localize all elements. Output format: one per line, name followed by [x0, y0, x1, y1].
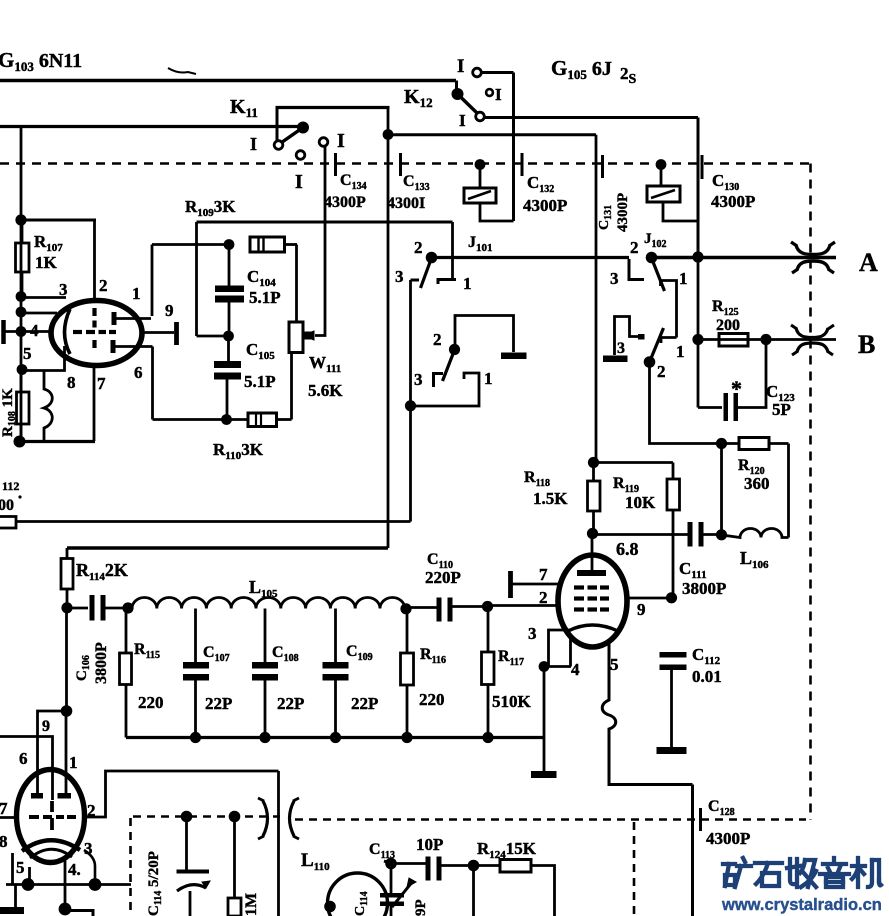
- ground lower left: [0, 885, 24, 915]
- svg-text:4: 4: [571, 660, 580, 679]
- wire second line to K11 pole: [0, 125, 301, 128]
- svg-text:4300I: 4300I: [387, 195, 425, 212]
- node L105 left: [122, 602, 133, 613]
- svg-text:4300P: 4300P: [324, 194, 366, 211]
- node C110 right: [482, 601, 493, 612]
- tube label G103 6N11: [0, 48, 82, 74]
- capacitor C110: [437, 598, 489, 622]
- svg-text:5: 5: [610, 655, 619, 674]
- capacitor C123 label: [766, 382, 795, 419]
- capacitor C130 label: [711, 171, 755, 211]
- wire top supply line: [0, 79, 456, 82]
- svg-text:5.1P: 5.1P: [244, 372, 276, 391]
- switch K11 contact II-b circle: [319, 138, 328, 147]
- svg-text:6: 6: [19, 749, 28, 768]
- capacitor C134 label: [324, 172, 367, 211]
- node at 388,134: [383, 129, 394, 140]
- tube G101 cathode arcs: [22, 840, 80, 858]
- node pin3 stub: [16, 291, 27, 302]
- wire pin9 stub: [627, 597, 672, 600]
- resistor R108 label rotated: [0, 388, 18, 437]
- capacitor C104 label: [247, 267, 281, 307]
- switch J102 step contact 3: [629, 259, 644, 280]
- svg-text:00: 00: [0, 497, 14, 514]
- pin label 4 lower: [68, 860, 81, 879]
- trimmer C114 right: [380, 868, 416, 916]
- trimmer J102 bottom loop: [663, 202, 698, 221]
- trimmer J101 node: [475, 159, 486, 170]
- switch J101 contact 1 bar: [438, 280, 456, 285]
- svg-text:4300P: 4300P: [706, 829, 750, 848]
- switch J102 label 1 upper: [679, 269, 688, 288]
- resistor R118: [588, 463, 601, 534]
- switch K11 label II below: [295, 171, 303, 193]
- node grid input: [16, 326, 27, 337]
- node R117 bottom: [482, 732, 493, 743]
- svg-text:1: 1: [463, 274, 472, 293]
- capacitor C105 label: [244, 340, 276, 391]
- wire cathode left drop: [11, 853, 14, 885]
- node cathode bottom: [14, 436, 26, 448]
- connector A arcs: [791, 242, 835, 273]
- node L105 right: [400, 603, 411, 614]
- node L110 tap: [324, 901, 336, 913]
- node heater tap: [17, 364, 28, 375]
- switch K12 contact I bottom circle: [476, 112, 485, 121]
- resistor R117: [482, 607, 495, 738]
- resistor R107: [16, 220, 30, 296]
- grid input T-bar: [4, 320, 51, 344]
- svg-text:*: *: [731, 376, 742, 401]
- trimmer J102 label: [644, 231, 667, 250]
- switch K11 label I: [250, 134, 257, 154]
- gang coupling symbol: [258, 798, 299, 839]
- svg-text:9: 9: [42, 718, 50, 735]
- terminal label A: [859, 248, 878, 277]
- switch K12 label I aux: [495, 85, 502, 104]
- capacitor C130 tick: [701, 155, 704, 179]
- label 6.8: [616, 539, 639, 559]
- svg-text:4300P: 4300P: [615, 193, 631, 232]
- svg-text:2: 2: [630, 238, 639, 257]
- switch J101b contact 1: [413, 373, 479, 406]
- wire 388 to 596 link: [388, 133, 596, 136]
- svg-text:1: 1: [679, 269, 688, 288]
- switch J101 contact 3: [432, 374, 443, 388]
- switch J102b label 3: [617, 340, 625, 357]
- pin label 2 G105: [539, 588, 548, 607]
- svg-text:2: 2: [87, 801, 96, 820]
- switch J101b top link: [455, 316, 514, 353]
- wire x722 link: [720, 444, 723, 535]
- pin label 3 lower: [84, 839, 93, 858]
- wire pin3 drop lower: [84, 850, 95, 885]
- switch K12 aux circle: [486, 89, 493, 96]
- svg-text:3: 3: [59, 280, 68, 299]
- switch K11 label II right: [337, 130, 345, 152]
- inductor L105: [132, 598, 405, 609]
- svg-text:4300P: 4300P: [523, 196, 567, 215]
- node bottom bus b: [89, 878, 102, 891]
- svg-text:8: 8: [0, 832, 8, 851]
- resistor R115: [120, 608, 132, 738]
- trimmer J101 bottom loop: [480, 203, 514, 221]
- wire top of R107 box: [18, 219, 96, 222]
- capacitor C105: [214, 336, 241, 420]
- svg-text:A: A: [859, 248, 878, 277]
- capacitor C112: [660, 652, 687, 747]
- svg-text:1: 1: [132, 284, 141, 303]
- left partial label 112: [0, 479, 22, 514]
- svg-text:R12415K: R12415K: [477, 839, 537, 861]
- switch K12 label I bottom: [459, 111, 466, 130]
- svg-text:7: 7: [539, 565, 548, 584]
- node C113 R124 junction: [468, 860, 480, 872]
- node trimmer C114 tap: [181, 811, 193, 823]
- switch K11 label: [230, 96, 258, 120]
- svg-text:0.01: 0.01: [692, 667, 722, 686]
- trimmer J102 body: [647, 186, 680, 202]
- wire pin4 drop lower: [64, 858, 67, 908]
- trimmer J102 node: [656, 159, 667, 170]
- switch J101 upper contact 3: [411, 279, 420, 282]
- svg-text:6: 6: [134, 363, 143, 382]
- wire pin6 drop: [151, 347, 154, 420]
- svg-text:220: 220: [419, 690, 445, 709]
- wire K12 I to right riser: [484, 116, 698, 119]
- wire pin2 drop: [93, 221, 96, 303]
- pin label 5: [23, 344, 32, 363]
- switch J102b lever: [650, 328, 664, 362]
- capacitor C131 tick: [601, 155, 604, 178]
- scan artifact tilde: [168, 68, 196, 74]
- node pin4 bottom: [59, 903, 72, 916]
- svg-text:2: 2: [414, 238, 423, 257]
- resistor R114: [61, 548, 73, 608]
- capacitor C107 label: [203, 644, 232, 713]
- capacitor C113: [426, 857, 475, 881]
- resistor R107 label: [34, 232, 63, 272]
- wire R114 top line: [67, 546, 388, 549]
- svg-text:5: 5: [23, 344, 32, 363]
- tube G105 cathode arc: [568, 625, 618, 631]
- wire K12 top contact link: [481, 71, 514, 74]
- wire anode box left: [195, 222, 198, 336]
- resistor R125: [719, 334, 748, 347]
- resistor 1M label rotated: [243, 893, 260, 916]
- ground cathode G105: [531, 738, 557, 779]
- switch J101 label 1: [463, 274, 472, 293]
- switch K12 pole: [452, 88, 464, 100]
- node C108 bottom: [259, 732, 270, 743]
- resistor R125 label: [712, 298, 740, 334]
- switch J101b pole node: [449, 344, 460, 355]
- svg-text:3: 3: [610, 269, 619, 288]
- svg-text:22P: 22P: [205, 694, 232, 713]
- capacitor C132 tick: [521, 153, 524, 176]
- tube G101 grid dashes: [29, 815, 76, 819]
- wire K11 top link: [276, 106, 390, 109]
- resistor R109: [250, 237, 297, 252]
- wire cathode drop G105: [543, 667, 546, 738]
- wire K12 pole feed: [455, 81, 458, 92]
- switch J101 pole node: [426, 252, 438, 264]
- wire pin5 with squiggle: [602, 641, 692, 785]
- wire pin3 pin4 G105: [544, 630, 571, 667]
- wire riser x698 A-to-C123: [697, 257, 700, 408]
- tube G101 grid vertical dashes: [50, 801, 54, 830]
- resistor R124 label: [477, 839, 537, 861]
- switch K12 lever: [458, 94, 478, 113]
- ground bar J102b: [603, 356, 628, 363]
- wire plate strap: [38, 711, 67, 795]
- svg-text:220P: 220P: [425, 568, 461, 587]
- inductor L106 label: [740, 548, 769, 571]
- switch J102 label 3 upper: [610, 269, 619, 288]
- svg-text:1K: 1K: [35, 253, 58, 272]
- wire R110 line: [153, 418, 249, 421]
- wire pin2 G105: [488, 604, 560, 607]
- wire R109 to W111 top: [295, 245, 298, 323]
- inductor L106: [722, 529, 789, 538]
- inductor L110 loop: [328, 873, 388, 916]
- watermark url: [721, 896, 882, 914]
- pin label 7 lower: [0, 799, 8, 818]
- svg-text:B: B: [858, 330, 875, 359]
- pin label 9 lower: [42, 718, 50, 735]
- node resistor 1M tap: [229, 811, 241, 823]
- wire anode box top: [197, 221, 453, 224]
- wire R118 R119 link: [594, 461, 674, 464]
- capacitor C108: [252, 609, 278, 738]
- capacitor C111 label: [679, 559, 726, 598]
- tube G103 plate top: [114, 312, 151, 325]
- svg-text:200: 200: [716, 317, 740, 334]
- node bottom bus a: [22, 878, 35, 891]
- svg-text:9: 9: [165, 301, 174, 320]
- wire contact1 riser x452: [451, 222, 454, 280]
- capacitor C131 label rotated: [597, 193, 631, 232]
- pin label 7: [97, 374, 106, 393]
- pin label 4: [30, 321, 39, 340]
- tube G103 envelope: [51, 301, 142, 366]
- potentiometer W111: [289, 322, 314, 353]
- switch K12 label: [404, 86, 433, 110]
- pin label 8: [67, 373, 76, 392]
- trimmer C114 label rotated: [146, 851, 164, 916]
- resistor R110: [248, 413, 292, 427]
- switch J101 lever: [421, 258, 432, 288]
- ground bar J101b: [501, 353, 527, 360]
- resistor R115 label: [134, 641, 164, 712]
- wire pin3 stub: [21, 296, 66, 299]
- svg-text:www.crystalradio.cn: www.crystalradio.cn: [721, 896, 882, 914]
- pin label 5 lower: [16, 858, 25, 877]
- node C107 bottom: [190, 732, 201, 743]
- capacitor C106: [67, 595, 128, 621]
- capacitor C104: [215, 245, 244, 337]
- svg-text:220: 220: [138, 693, 164, 712]
- node R116 bottom: [401, 732, 412, 743]
- node B left junction: [692, 334, 703, 345]
- wire B line: [698, 338, 836, 341]
- svg-text:3800P: 3800P: [93, 642, 110, 684]
- wire riser x388: [387, 108, 390, 549]
- svg-text:3: 3: [528, 624, 537, 643]
- terminal label B: [858, 330, 875, 359]
- node C109 bottom: [330, 732, 341, 743]
- resistor R108: [17, 370, 30, 441]
- switch J101b label 2: [433, 330, 442, 349]
- svg-text:I: I: [457, 56, 464, 77]
- svg-text:10K: 10K: [625, 493, 656, 512]
- switch K12 label I top: [457, 56, 464, 77]
- capacitor C108 label: [272, 644, 304, 713]
- wire box-left to C104 junction: [197, 335, 229, 338]
- wire pin1 riser: [151, 245, 154, 317]
- capacitor C106 label rotated: [74, 642, 110, 684]
- capacitor C109 label: [346, 643, 378, 713]
- pin 7 T-bar: [511, 571, 559, 598]
- svg-text:7: 7: [97, 374, 106, 393]
- wire bottom bus lower: [6, 883, 131, 886]
- svg-text:9: 9: [637, 600, 646, 619]
- tube G101 plates: [31, 793, 71, 799]
- trimmer J101 body: [464, 188, 496, 203]
- pin label 3 G105: [528, 624, 537, 643]
- wire riser x513: [512, 73, 515, 222]
- svg-text:1: 1: [676, 342, 685, 361]
- resistor R110 label: [213, 440, 264, 462]
- wire grid box right drop: [277, 771, 280, 916]
- capacitor C107: [183, 609, 209, 738]
- node R109 left: [224, 239, 235, 250]
- svg-text:1M: 1M: [243, 893, 260, 916]
- capacitor C123: [698, 340, 766, 422]
- svg-text:3800P: 3800P: [682, 579, 726, 598]
- capacitor C113 label: [369, 835, 443, 861]
- inductor L105 label: [249, 577, 278, 600]
- shield dashed top line: [0, 162, 810, 165]
- switch J101 pole label 2: [414, 238, 423, 257]
- svg-text:8: 8: [67, 373, 76, 392]
- switch K11 pole: [297, 122, 309, 134]
- wire K11 IIb to W111 wiper: [315, 146, 325, 336]
- node pin9 G105: [666, 592, 677, 603]
- node plate junction: [587, 528, 598, 539]
- wire C111 link: [593, 533, 689, 536]
- tube label G105 6J2S: [551, 56, 637, 87]
- svg-text:112: 112: [2, 479, 19, 493]
- capacitor C110 label: [425, 551, 461, 587]
- pin label 2 lower: [87, 801, 96, 820]
- wire L105 to C110: [406, 606, 437, 609]
- wire C113 node drop: [472, 866, 475, 916]
- wire A-line left segment: [435, 256, 629, 259]
- svg-text:6.8: 6.8: [616, 539, 639, 559]
- pin label 4 G105: [571, 660, 580, 679]
- switch J101b label 3: [414, 370, 423, 389]
- resistor R120: [739, 438, 789, 450]
- tube G103 plate bottom: [113, 340, 153, 353]
- trimmer J101 stem: [479, 165, 482, 189]
- svg-text:I: I: [495, 85, 502, 104]
- wire pin8 path: [22, 346, 65, 371]
- resistor R116: [401, 609, 414, 738]
- resistor R124: [474, 860, 555, 916]
- wire pin-a stub: [21, 312, 57, 315]
- svg-text:G103 6N11: G103 6N11: [0, 48, 82, 74]
- svg-text:1: 1: [69, 753, 78, 772]
- pin label 1 lower: [69, 753, 78, 772]
- tube G105 envelope: [558, 555, 627, 647]
- pin label 1: [132, 284, 141, 303]
- node pin-a stub: [16, 307, 27, 318]
- potentiometer W111 label: [308, 353, 343, 400]
- svg-text:2: 2: [99, 276, 108, 295]
- svg-text:9P: 9P: [413, 899, 429, 916]
- wire left rail: [20, 125, 23, 447]
- pin label 8 lower: [0, 832, 8, 851]
- node R120 left junction: [716, 438, 727, 449]
- heater choke squiggle: [44, 371, 52, 442]
- switch J102 pole node: [646, 252, 658, 264]
- svg-text:I: I: [337, 130, 345, 152]
- wire riser x698: [697, 118, 700, 257]
- capacitor C128 label: [706, 798, 750, 848]
- node x410 contact join: [405, 400, 416, 411]
- wire ladder ground line: [126, 736, 544, 739]
- pin 9 stub and T-bar: [140, 322, 177, 345]
- node rail bottom: [61, 705, 73, 717]
- pin label 9: [165, 301, 174, 320]
- wire A-line right segment: [655, 256, 836, 259]
- tube G103 cathode arc: [65, 309, 71, 354]
- trimmer J102 stem: [660, 165, 663, 187]
- wire rail drop x66: [65, 608, 68, 712]
- pin label 9 G105: [637, 600, 646, 619]
- switch J102b contact 1: [661, 338, 677, 344]
- wire riser x410: [409, 280, 412, 522]
- capacitor C111: [688, 522, 722, 547]
- pin label 6: [134, 363, 143, 382]
- switch K11 lever: [282, 128, 304, 143]
- svg-text:22P: 22P: [351, 694, 378, 713]
- svg-text:2: 2: [539, 588, 548, 607]
- wire pin7 stub lower: [0, 816, 17, 819]
- wire cathode bottom line: [14, 440, 95, 443]
- wire pin2 path lower: [84, 771, 279, 817]
- node A junction: [692, 251, 703, 262]
- wire K11 contact I riser: [276, 108, 279, 142]
- svg-text:3: 3: [617, 340, 625, 357]
- wire pin5 drop x692: [691, 785, 694, 916]
- node L110 top: [385, 858, 397, 870]
- wire J102b pole drop: [650, 362, 740, 444]
- shield dashed right side: [809, 164, 812, 821]
- pin label 7 G105: [539, 565, 548, 584]
- switch J102 pole label 2: [630, 238, 639, 257]
- svg-text:C114 5/20P: C114 5/20P: [146, 851, 164, 916]
- switch J101b lever: [443, 350, 455, 381]
- shield dashed left bottom: [129, 818, 132, 916]
- node cathode G105: [539, 661, 550, 672]
- svg-text:2: 2: [657, 362, 666, 381]
- resistor R119 label: [613, 475, 656, 512]
- svg-text:3: 3: [395, 267, 404, 286]
- svg-text:2: 2: [433, 330, 442, 349]
- wire riser x596: [595, 135, 598, 463]
